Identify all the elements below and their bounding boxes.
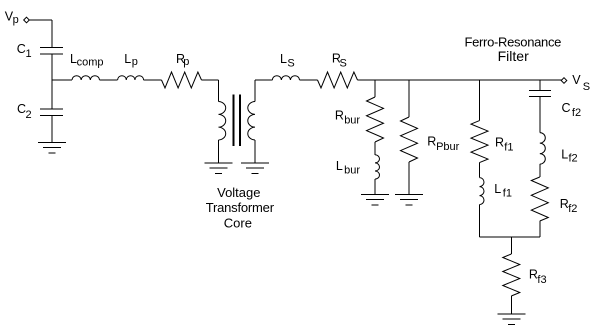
wire bottom rail to Rf3 <box>510 237 512 254</box>
Vs terminal <box>561 78 567 84</box>
svg-text:S: S <box>287 57 294 69</box>
inductor Ls <box>272 76 299 80</box>
wire Lf2 to Rf2 <box>539 164 541 177</box>
ground below secondary <box>241 162 269 164</box>
wire Rf2 to bottom rail <box>539 221 541 237</box>
Vp terminal <box>24 17 30 23</box>
inductor Lf1 <box>480 178 485 205</box>
svg-text:f3: f3 <box>537 274 546 286</box>
svg-text:f2: f2 <box>572 107 581 119</box>
node A <box>52 79 72 81</box>
wire rail to RPbur <box>408 80 410 117</box>
bottom rail wire <box>480 236 540 238</box>
svg-text:2: 2 <box>26 109 32 121</box>
svg-text:1: 1 <box>26 48 32 60</box>
wire Lp to Rp <box>144 79 162 81</box>
svg-text:f2: f2 <box>568 203 577 215</box>
wire Ls to Rs <box>300 79 318 81</box>
wire rail to Cf2 <box>539 80 541 91</box>
wire Cf2 to Lf2 <box>539 97 541 133</box>
svg-text:C: C <box>17 42 26 56</box>
wire Rf3 to ground <box>510 296 512 314</box>
svg-text:L: L <box>124 52 131 66</box>
capacitor C2 <box>40 108 63 110</box>
capacitor C1 <box>40 47 63 49</box>
capacitor Cf2 <box>529 90 551 92</box>
wire Rs to Vs rail <box>358 79 562 81</box>
wire RPbur to ground <box>408 162 410 194</box>
wire secondary to ground <box>254 140 256 163</box>
ground below C2 <box>38 142 66 144</box>
resistor Rp <box>162 72 202 88</box>
svg-text:p: p <box>132 56 138 68</box>
svg-text:L: L <box>280 52 287 66</box>
wire rail to Rbur <box>374 80 376 97</box>
ground below RPbur <box>395 193 423 195</box>
svg-text:R: R <box>495 136 504 150</box>
transformer primary winding <box>219 102 226 140</box>
wire C1 to node A <box>51 54 53 80</box>
resistor Rf2 <box>531 177 548 221</box>
ground below primary <box>205 162 233 164</box>
svg-text:p: p <box>13 14 19 26</box>
resistor Rf3 <box>503 254 520 296</box>
svg-text:bur: bur <box>344 165 360 177</box>
resistor Rbur <box>367 97 384 142</box>
transformer core <box>233 95 235 147</box>
wire Lf1 to bottom rail <box>479 205 481 237</box>
ground below Rf3 <box>497 313 525 315</box>
wire Lcomp to Lp <box>100 79 118 81</box>
transformer secondary winding <box>248 102 255 140</box>
svg-text:R: R <box>427 135 436 149</box>
resistor RPbur <box>401 117 418 162</box>
inductor Lf2 <box>540 133 546 165</box>
svg-text:Pbur: Pbur <box>436 141 460 153</box>
svg-text:S: S <box>583 81 590 93</box>
svg-text:L: L <box>561 147 568 161</box>
svg-text:V: V <box>572 73 581 87</box>
resistor Rf1 <box>471 121 488 163</box>
svg-text:C: C <box>562 101 571 115</box>
wire secondary to Ls <box>254 80 256 102</box>
wire primary to ground <box>218 140 220 163</box>
svg-text:f1: f1 <box>503 187 512 199</box>
ground below Lbur <box>361 193 389 195</box>
svg-text:f1: f1 <box>504 141 513 153</box>
svg-text:p: p <box>183 56 189 68</box>
wire Vp to C1 <box>29 19 52 21</box>
wire node A to C2 <box>51 80 53 109</box>
resistor Rs <box>318 72 358 88</box>
svg-text:S: S <box>340 58 347 70</box>
wire rail to Rf1 <box>479 80 481 121</box>
svg-text:Filter: Filter <box>498 48 529 64</box>
svg-text:L: L <box>336 159 343 173</box>
svg-text:f2: f2 <box>569 153 578 165</box>
svg-text:Transformer: Transformer <box>206 200 275 215</box>
svg-text:bur: bur <box>344 114 360 126</box>
inductor Lbur <box>375 155 380 179</box>
wire Rf1 to Lf1 <box>479 163 481 178</box>
inductor Lp <box>118 76 144 80</box>
wire Rp to transformer primary <box>202 79 219 81</box>
svg-text:L: L <box>494 182 501 196</box>
svg-text:R: R <box>335 108 344 122</box>
wire Lbur to ground <box>374 179 376 194</box>
wire C2 to ground <box>51 116 53 143</box>
svg-text:Voltage: Voltage <box>217 185 260 200</box>
inductor Lcomp <box>72 76 100 80</box>
wire Rbur to Lbur <box>374 142 376 155</box>
svg-text:Core: Core <box>224 215 252 230</box>
svg-text:comp: comp <box>77 57 104 69</box>
